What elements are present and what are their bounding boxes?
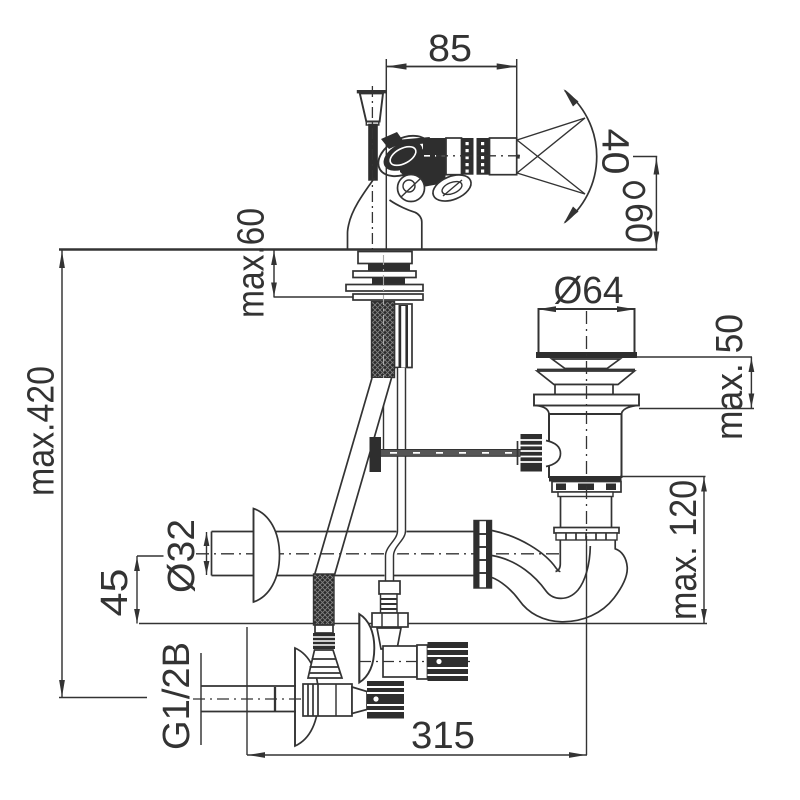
- faucet side joint slash: [443, 180, 462, 196]
- valve 2 wall dome: [359, 614, 374, 683]
- dimension 60 tick: [633, 156, 657, 158]
- spray swivel arc arrow bottom: [564, 207, 579, 225]
- dimension 315 line: [247, 752, 587, 758]
- faucet body dark mass: [400, 143, 447, 188]
- trap middle curve: [492, 546, 590, 598]
- faucet body ellipse: [372, 128, 437, 185]
- pull rod guide housing: [395, 304, 413, 368]
- faucet centerline vertical: [371, 86, 373, 255]
- waste big cone: [537, 371, 635, 385]
- stack centerline: [383, 255, 385, 390]
- spray fan line 2: [517, 118, 585, 173]
- drain pipe centerline: [196, 553, 560, 555]
- floor reference line: [139, 623, 707, 625]
- faucet handle dark shaft: [368, 124, 378, 181]
- faucet body top dark band: [386, 140, 430, 144]
- dimension max120 line: [701, 477, 707, 624]
- pull rod guide dark channel: [399, 305, 409, 368]
- waste flange top line: [537, 369, 635, 371]
- svg-text:45: 45: [94, 569, 136, 617]
- mounting plate 3: [353, 294, 423, 300]
- faucet cartridge slash: [401, 179, 420, 197]
- spray head separator gap: [474, 141, 477, 172]
- dimension 45 line: [134, 556, 140, 624]
- valve 1 inlet pipe top: [201, 685, 296, 687]
- valve 1 inlet pipe end extension: [200, 653, 202, 745]
- waste plug cylinder: [539, 309, 635, 354]
- svg-text:Ø64: Ø64: [554, 270, 624, 312]
- waste small cone: [552, 359, 620, 369]
- waste deck flange: [534, 395, 639, 406]
- dimension max420 line: [59, 250, 65, 698]
- faucet handle top bar: [357, 90, 387, 93]
- drain pipe end face: [211, 532, 213, 576]
- spray head centerline dashed: [436, 155, 523, 157]
- dimension 60 line: [654, 157, 660, 250]
- waste plug rim dark: [536, 352, 637, 358]
- dimension 45 top tick: [137, 555, 164, 557]
- dimension 85 line: [387, 63, 517, 69]
- valve 1 centerline: [193, 698, 362, 700]
- waste side knob knurled: [518, 434, 543, 472]
- trap coupling ring: [554, 528, 619, 534]
- trap inlet left wall hook: [556, 540, 561, 572]
- spout outer left curve: [348, 178, 375, 249]
- dimension 85 left extension line: [385, 59, 387, 249]
- dimension max120 top tick: [620, 476, 706, 478]
- hose A funnel: [308, 650, 342, 678]
- deck line: [59, 248, 657, 250]
- drain pipe wall flange dome: [254, 509, 280, 603]
- faucet cartridge circle: [398, 175, 425, 202]
- trap inner top curve: [492, 531, 560, 572]
- pop-up rod horizontal: [378, 450, 521, 457]
- waste body shoulders: [536, 406, 549, 415]
- trap outer curve: [492, 540, 627, 622]
- faucet handle cone: [360, 93, 383, 121]
- valve 2 body: [383, 646, 417, 677]
- valve 1 inlet pipe bottom: [201, 711, 296, 713]
- waste body cylinder: [549, 414, 622, 477]
- waste tailpipe right: [611, 497, 613, 528]
- hose B left edge: [386, 368, 398, 581]
- drain pipe bottom line: [212, 575, 475, 577]
- hose B end cap: [379, 581, 400, 594]
- spray fan line 4: [517, 173, 585, 194]
- waste lock nut: [552, 482, 621, 493]
- valve 2 cone: [377, 628, 401, 649]
- valve 2 union: [417, 645, 428, 679]
- mounting plate 1: [353, 271, 416, 278]
- waste neck section: [555, 385, 613, 395]
- svg-text:max. 50: max. 50: [709, 314, 751, 440]
- trap coupling striped: [556, 533, 617, 540]
- pop-up rod clevis: [370, 437, 382, 472]
- spray head face step: [517, 155, 520, 159]
- spray head end segment: [490, 138, 517, 175]
- mounting plate 2: [346, 285, 423, 292]
- svg-text:max.420: max.420: [21, 366, 63, 496]
- pop-up pull rod: [383, 390, 385, 452]
- dimension max50 line: [749, 357, 755, 409]
- hose A braided lower band: [314, 574, 335, 625]
- dimension max50 bottom tick: [639, 408, 754, 410]
- waste knob dome: [546, 441, 561, 467]
- waste tailpipe left: [560, 497, 562, 528]
- spray swivel arc arrow top: [564, 89, 579, 107]
- dimension O32 line: [204, 532, 210, 575]
- valve 2 centerline: [360, 661, 470, 663]
- max.60 bottom tick line: [274, 296, 354, 298]
- spout right curve: [390, 200, 422, 249]
- hose B nut: [372, 613, 408, 627]
- waste centerline dash: [586, 311, 588, 545]
- locknut dark lower: [372, 278, 405, 285]
- spray fan line 3: [517, 140, 585, 194]
- spray swivel arc: [565, 91, 597, 223]
- valve 1 wall dome: [295, 648, 319, 746]
- svg-text:Ø32: Ø32: [161, 519, 203, 593]
- spray head joint dark block: [423, 138, 446, 175]
- hose B white fill: [385, 368, 407, 582]
- svg-text:G1/2B: G1/2B: [156, 642, 198, 750]
- mounting shank rect: [358, 252, 412, 264]
- svg-text:60: 60: [617, 203, 659, 243]
- svg-text:315: 315: [411, 715, 475, 757]
- valve 1 cone: [352, 687, 367, 714]
- dimension O64 arrows: [539, 306, 556, 312]
- valve 1 body block: [303, 684, 352, 716]
- dimension 315 left extension: [246, 627, 248, 755]
- braided hose upper band: [372, 302, 395, 378]
- faucet handle stem: [366, 122, 379, 126]
- hose A tube left edge: [315, 378, 373, 575]
- svg-text:85: 85: [428, 28, 472, 70]
- faucet side joint ellipse: [429, 170, 475, 206]
- svg-text:max. 120: max. 120: [663, 480, 705, 620]
- hose B threaded section: [381, 594, 398, 613]
- dimension max420 bottom tick: [59, 697, 147, 699]
- spray head tube segment 1: [446, 138, 462, 175]
- faucet cartridge inner circle: [403, 180, 415, 192]
- waste body bottom dark band: [549, 476, 622, 482]
- spray head knurl band 2: [477, 138, 490, 175]
- locknut dark upper: [368, 264, 410, 272]
- valve 1 inlet pipe tick: [274, 687, 276, 711]
- dimension max.60 line: [271, 250, 277, 297]
- waste centerline solid: [586, 545, 588, 755]
- trap outlet union nut: [474, 521, 492, 589]
- hose A knurled nut: [313, 633, 335, 649]
- dimension max50 top tick: [636, 356, 752, 358]
- spray head knurl band 1: [462, 138, 474, 175]
- hose B right edge: [394, 368, 406, 581]
- hose A tube right edge: [335, 378, 392, 575]
- dimension 85 right extension line: [516, 59, 518, 174]
- spray fan line 1: [517, 118, 585, 140]
- drain pipe top line: [212, 531, 475, 533]
- svg-text:40: 40: [593, 129, 635, 175]
- valve 1 knurled handle: [367, 681, 404, 719]
- hose A tube white fill: [315, 378, 392, 575]
- waste nut lower step: [558, 492, 613, 497]
- valve 2 knurled handle: [428, 642, 469, 681]
- hose A end cap: [315, 625, 333, 633]
- svg-text:max.60: max.60: [231, 208, 273, 318]
